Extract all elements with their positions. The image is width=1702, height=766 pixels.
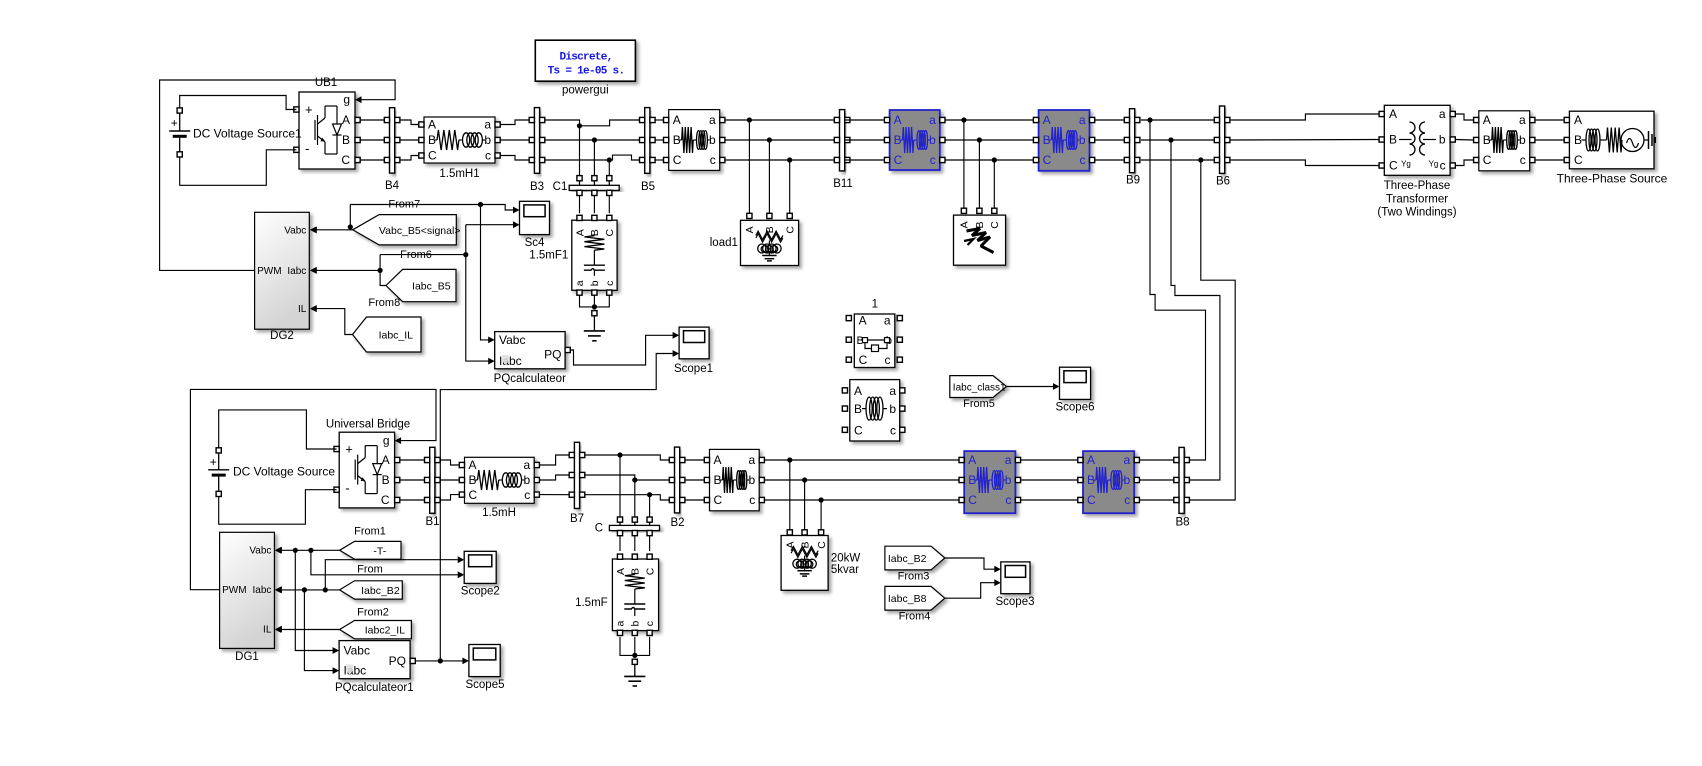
wire UB2 to bus B1 phase <box>400 479 425 481</box>
wire B11 to selected block <box>845 139 885 141</box>
wire down to PQcalculateor Vabc <box>481 205 489 340</box>
wire B5 to branch block <box>655 159 664 161</box>
svg-text:B5: B5 <box>641 181 655 193</box>
DC voltage source DC Voltage Source <box>208 448 335 497</box>
svg-text:Iabc: Iabc <box>252 585 271 596</box>
node load1 tap <box>767 137 772 142</box>
svg-text:b: b <box>524 473 531 487</box>
svg-text:-T-: -T- <box>373 545 386 557</box>
arrow into DG1 Iabc <box>275 587 282 594</box>
wire long tap B down to B8 <box>1171 140 1220 480</box>
svg-text:B2: B2 <box>670 517 684 529</box>
three-phase transformer (two windings) <box>1377 105 1456 218</box>
wire battery1 + to UB1 + <box>180 96 297 110</box>
wire vertical to PQcalculateor Iabc <box>466 225 489 361</box>
wire B6 to transformer C <box>1230 160 1379 166</box>
wire tap down to fault block <box>978 140 980 208</box>
wire B1 to 1.5mH A <box>441 460 460 465</box>
wire B6 to transformer B <box>1230 139 1379 142</box>
svg-text:Universal Bridge: Universal Bridge <box>326 419 410 431</box>
bus B4 <box>384 108 400 192</box>
svg-text:a: a <box>1079 113 1086 127</box>
svg-text:A: A <box>615 568 627 575</box>
PQcalculateor block <box>494 332 571 385</box>
wire B4-c to 1.5mH1 C <box>400 156 419 161</box>
wire Vabc down to PQcalculateor1 <box>295 550 333 650</box>
From tag From6 <box>386 269 456 301</box>
wire long tap A down to B8 <box>1150 120 1206 460</box>
svg-text:a: a <box>1519 113 1526 127</box>
svg-text:A: A <box>469 458 477 472</box>
svg-text:B7: B7 <box>570 513 584 525</box>
label From2 <box>357 607 389 619</box>
label From7 <box>388 199 420 211</box>
wire B1 to 1.5mH B <box>441 479 460 481</box>
svg-text:a: a <box>615 621 627 627</box>
arrow into Scope3 first input <box>994 566 1001 573</box>
wire branch to selected block phase <box>764 499 959 501</box>
svg-text:c: c <box>1005 493 1011 507</box>
three-phase series RL branch selected-bottom-1 <box>959 451 1021 513</box>
svg-text:B: B <box>1389 133 1397 147</box>
svg-text:B9: B9 <box>1126 175 1140 187</box>
svg-text:a: a <box>1005 453 1012 467</box>
svg-text:A: A <box>1389 107 1397 121</box>
svg-text:1.5mF: 1.5mF <box>575 597 608 609</box>
wire long tap C down to B8 <box>1189 160 1235 500</box>
scope Scope2 <box>461 551 500 597</box>
svg-text:a: a <box>749 453 756 467</box>
label From4 <box>899 611 931 623</box>
svg-text:A: A <box>1574 113 1582 127</box>
node tap B to C bank <box>632 477 637 482</box>
wire 1.5mH b to B7 <box>539 475 569 480</box>
svg-text:Discrete,: Discrete, <box>559 52 612 64</box>
svg-text:From: From <box>357 563 383 575</box>
wire selected1 to selected2 phase bottom <box>1021 459 1078 461</box>
ground below 1.5mF1 <box>584 311 605 341</box>
node fault tap <box>992 157 997 162</box>
bus B3 <box>529 108 545 193</box>
svg-text:C: C <box>1087 493 1096 507</box>
svg-text:C: C <box>859 353 868 367</box>
svg-text:Iabc_B5: Iabc_B5 <box>412 281 451 293</box>
arrow into DG1 IL <box>275 626 282 633</box>
arrow into DG2 Vabc <box>310 226 317 233</box>
svg-text:Vabc: Vabc <box>344 644 370 658</box>
wire DG2 PWM to UB1 gate <box>160 80 396 270</box>
label From1 <box>354 526 386 538</box>
svg-text:C: C <box>644 567 656 575</box>
svg-text:C: C <box>381 493 390 507</box>
label From <box>357 563 383 575</box>
three-phase series RL branch branch-B2 <box>704 449 764 510</box>
wire B4-b to 1.5mH1 B <box>400 139 419 141</box>
wire B9 to B6 phase <box>1141 119 1217 121</box>
svg-text:DC Voltage Source: DC Voltage Source <box>233 465 335 479</box>
wire UB1 to bus B4 phase <box>360 119 384 121</box>
wire 1.5mH1 a to B3 <box>500 120 529 125</box>
node tap A to B8 <box>1147 117 1152 122</box>
arrow into Scope2 second input <box>458 571 465 578</box>
svg-text:PQ: PQ <box>544 348 561 362</box>
wire tap A down to C bank <box>619 455 621 517</box>
wire C1 down to 1.5mF1 <box>593 196 595 214</box>
wire RL block to source phase <box>1535 159 1567 161</box>
wire tap down to load1 <box>789 160 791 213</box>
arrow into PQcalculateor Iabc <box>488 358 495 365</box>
wire branch to B11 phase C <box>725 159 835 161</box>
wire transformer b to RL block <box>1455 139 1473 142</box>
universal bridge UB1 <box>294 77 362 169</box>
three-phase fault block <box>954 208 1006 265</box>
svg-text:a: a <box>484 118 491 132</box>
svg-text:C: C <box>428 149 437 163</box>
wire selected2 to B8 phase <box>1139 459 1173 461</box>
scope Scope5 <box>465 645 504 691</box>
svg-text:C1: C1 <box>553 181 568 193</box>
arrow into Sc4 second input <box>513 221 520 228</box>
wire B2 to branch block phase <box>685 479 704 481</box>
three-phase series RL branch branch-B5 <box>664 110 725 171</box>
svg-text:From4: From4 <box>899 611 931 623</box>
arrow into Scope6 <box>1053 383 1060 390</box>
svg-text:B3: B3 <box>530 181 544 193</box>
three-phase series RL branch selected-top-1 <box>884 110 945 170</box>
svg-text:b: b <box>629 621 641 627</box>
svg-text:A: A <box>382 453 390 467</box>
powergui block <box>535 40 635 96</box>
wire Iabc_B2 to DG1 Iabc <box>281 589 340 591</box>
svg-text:+: + <box>305 102 313 117</box>
wire 1.5mH1 c to B3 <box>500 156 529 161</box>
wire selected2 to B8 phase <box>1139 479 1173 481</box>
svg-text:b: b <box>1519 133 1526 147</box>
wire battery2 + to UB2 + <box>219 410 337 449</box>
wire PQcalculateor1 PQ to Scope1 second input <box>440 354 673 661</box>
From tag From1 <box>340 541 401 559</box>
three-phase breaker block 1 <box>846 299 902 368</box>
label From3 <box>898 571 930 583</box>
svg-text:Yg: Yg <box>1429 160 1439 169</box>
svg-text:A: A <box>785 541 797 548</box>
svg-text:Three-Phase Source: Three-Phase Source <box>1557 171 1668 185</box>
svg-text:A: A <box>1087 453 1095 467</box>
bus B6 <box>1214 106 1230 188</box>
svg-text:From3: From3 <box>898 571 930 583</box>
svg-text:Scope6: Scope6 <box>1055 402 1094 414</box>
wire phase C tap to B5 <box>609 155 639 160</box>
svg-text:IL: IL <box>298 304 307 315</box>
svg-text:c: c <box>710 153 716 167</box>
svg-text:c: c <box>1124 493 1130 507</box>
node From6 branch <box>378 268 383 273</box>
wire B1 to 1.5mH C <box>441 495 460 500</box>
svg-text:(Two Windings): (Two Windings) <box>1377 207 1456 219</box>
label Universal Bridge <box>326 419 410 431</box>
svg-text:a: a <box>1124 453 1131 467</box>
svg-text:c: c <box>930 153 936 167</box>
wire Vabc to Scope2 second input <box>311 550 458 575</box>
svg-text:1.5mF1: 1.5mF1 <box>529 249 568 261</box>
svg-text:A: A <box>714 453 722 467</box>
PQcalculateor1 block <box>335 641 415 695</box>
wire Iabc down to PQcalculateor1 <box>304 590 332 671</box>
arrow into PQcalculateor1 Vabc <box>333 647 340 654</box>
label From6 <box>400 249 432 261</box>
scope Scope3 <box>995 562 1034 608</box>
DG subsystem DG1 <box>220 532 282 663</box>
svg-text:C: C <box>714 493 723 507</box>
wire B11 to selected block <box>845 119 885 121</box>
svg-text:b: b <box>1079 133 1086 147</box>
wire From4 to Scope3 <box>945 583 995 599</box>
wire From6 to DG2 Iabc <box>316 269 380 271</box>
wire PQ to Scope5 <box>415 660 462 662</box>
svg-text:Sc4: Sc4 <box>525 237 545 249</box>
wire UB1 to bus B4 phase <box>360 139 384 141</box>
svg-text:C: C <box>673 153 682 167</box>
wire branch to B11 phase A <box>725 119 835 121</box>
svg-text:Vabc: Vabc <box>249 546 271 557</box>
wire tap down to 20kW load <box>804 480 806 530</box>
svg-text:B: B <box>854 402 862 416</box>
svg-text:C: C <box>894 153 903 167</box>
svg-text:B: B <box>589 229 601 236</box>
wire B9 to B6 phase <box>1141 159 1217 161</box>
svg-text:IL: IL <box>263 625 272 636</box>
svg-text:A: A <box>673 113 681 127</box>
svg-text:DG1: DG1 <box>235 651 259 663</box>
svg-text:B6: B6 <box>1216 176 1230 188</box>
wire DG1 PWM to UB2 gate <box>190 389 436 589</box>
wire branch to selected block phase <box>764 459 959 461</box>
svg-text:A: A <box>859 314 867 328</box>
three-phase RC branch 1.5mF1 <box>529 215 617 295</box>
wire tap A down to C1 <box>579 126 581 176</box>
svg-text:c: c <box>485 149 491 163</box>
svg-text:a: a <box>1439 107 1446 121</box>
wire selected1 to selected2 phase bottom <box>1021 499 1078 501</box>
svg-text:g: g <box>343 93 350 107</box>
node phase C tap to C1 <box>607 157 612 162</box>
wire Iabc to Scope2 first input <box>325 560 458 590</box>
wire B5 to branch block <box>655 119 664 121</box>
svg-text:PQcalculateor1: PQcalculateor1 <box>335 682 414 694</box>
wire branch to selected block phase <box>764 479 959 481</box>
svg-text:c: c <box>604 281 616 286</box>
wire B2 to branch block phase <box>685 499 704 501</box>
wire tap down to 20kW load <box>820 500 822 530</box>
svg-text:A: A <box>1483 113 1491 127</box>
wire B7 to B2 phase A <box>585 455 670 460</box>
node 20kW load tap <box>787 457 792 462</box>
svg-text:C: C <box>1483 153 1492 167</box>
node neutral join bottom <box>632 653 637 658</box>
node Iabc branch to PQcalculateor1 <box>302 587 307 592</box>
svg-text:Three-Phase: Three-Phase <box>1384 180 1450 192</box>
svg-text:a: a <box>929 113 936 127</box>
svg-text:Scope3: Scope3 <box>995 596 1034 608</box>
node tap C to B8 <box>1198 157 1203 162</box>
node tap B to B8 <box>1168 137 1173 142</box>
From tag From4 <box>885 586 945 610</box>
svg-text:C: C <box>785 226 797 234</box>
svg-text:B: B <box>382 473 390 487</box>
wire C1 down to 1.5mF1 <box>608 196 610 214</box>
svg-text:load1: load1 <box>710 237 738 249</box>
svg-text:Iabc_class1: Iabc_class1 <box>953 383 1006 394</box>
svg-text:A: A <box>744 226 756 233</box>
node Vabc branch to Scope2 <box>308 548 313 553</box>
DG subsystem DG2 <box>255 212 317 342</box>
wire -T- to DG1 Vabc <box>281 549 340 551</box>
node 20kW load tap <box>819 497 824 502</box>
svg-text:C: C <box>854 423 863 437</box>
arrow into Scope2 first input <box>458 556 465 563</box>
svg-text:From2: From2 <box>357 607 389 619</box>
svg-text:a: a <box>709 113 716 127</box>
wire 1.5mF b to neutral <box>634 637 636 656</box>
wire From3 to Scope3 <box>945 558 995 569</box>
svg-text:c: c <box>890 423 896 437</box>
svg-text:20kW: 20kW <box>831 553 861 565</box>
svg-text:A: A <box>574 229 586 236</box>
svg-text:B11: B11 <box>833 178 853 190</box>
svg-text:C: C <box>341 153 350 167</box>
bus B11 <box>833 110 853 190</box>
label From8 <box>368 297 400 309</box>
wire battery2 - to UB2 - <box>219 490 337 525</box>
svg-text:C: C <box>1043 153 1052 167</box>
wire branch to B11 phase B <box>725 139 835 141</box>
wire tap down to fault block <box>993 160 995 208</box>
three-phase RC branch 1.5mF <box>575 554 658 635</box>
wire 1.5mF c to neutral <box>635 637 650 656</box>
svg-text:Iabc: Iabc <box>287 266 306 277</box>
wire 1.5mF1 b to neutral <box>593 296 595 307</box>
svg-text:B1: B1 <box>425 516 439 528</box>
svg-text:C: C <box>1389 159 1398 173</box>
svg-text:PWM: PWM <box>222 585 246 596</box>
svg-text:c: c <box>644 621 656 626</box>
node PQ branch to Scope1 <box>438 658 443 663</box>
wire B3 to phase C tap <box>545 159 610 161</box>
svg-text:a: a <box>889 384 896 398</box>
wire From6 tag up <box>380 255 386 286</box>
svg-text:Vabc_B5<signal>: Vabc_B5<signal> <box>379 225 461 237</box>
svg-text:A: A <box>959 221 971 228</box>
wire From5 to Scope6 <box>1007 386 1054 388</box>
svg-text:B: B <box>1574 133 1582 147</box>
svg-text:Vabc: Vabc <box>284 226 306 237</box>
wire UB1 to bus B4 phase <box>360 159 384 161</box>
svg-text:Scope2: Scope2 <box>461 586 500 598</box>
svg-text:C: C <box>989 221 1001 229</box>
wire tap down to load1 <box>768 140 770 213</box>
three-phase series RL branch selected-bottom-2 <box>1078 451 1140 513</box>
three-phase series RL branch 1.5mH1 <box>419 117 500 180</box>
bus B1 <box>425 447 441 528</box>
svg-text:+: + <box>171 116 178 130</box>
svg-text:1.5mH1: 1.5mH1 <box>439 168 479 180</box>
three-phase load 20kW 5kvar <box>781 530 860 591</box>
wire PQ to Scope1 <box>570 335 673 365</box>
svg-text:Iabc_B2: Iabc_B2 <box>361 585 400 597</box>
capacitor bank C <box>595 517 660 536</box>
wire phase C into B2 <box>650 495 670 500</box>
wire C bank down to 1.5mF <box>619 536 621 551</box>
svg-text:+: + <box>345 442 353 457</box>
wire From7 tag up <box>350 205 352 230</box>
wire B9 to B6 phase <box>1141 139 1217 141</box>
wire RL block to source phase <box>1535 119 1567 121</box>
svg-text:C: C <box>1574 153 1583 167</box>
svg-text:PQcalculateor: PQcalculateor <box>494 373 566 385</box>
arrow into Sc4 first input <box>513 207 520 214</box>
svg-text:1: 1 <box>872 299 878 311</box>
svg-text:DC Voltage Source1: DC Voltage Source1 <box>193 126 302 140</box>
node From7 line branch <box>478 202 483 207</box>
svg-text:C: C <box>816 541 828 549</box>
three-phase inductor block <box>842 380 905 441</box>
node phase B tap to C1 <box>592 137 597 142</box>
arrow into DG2 Iabc <box>310 267 317 274</box>
wire transformer a to RL block <box>1455 114 1473 120</box>
wire selected2 to B9 phase <box>1095 139 1127 141</box>
svg-text:From5: From5 <box>963 398 995 410</box>
wire From6 line <box>380 254 466 256</box>
node load1 tap <box>747 117 752 122</box>
svg-text:b: b <box>709 133 716 147</box>
three-phase series RL branch source-RL <box>1474 111 1535 171</box>
node tap C to C bank <box>647 492 652 497</box>
From tag From2 <box>340 581 403 599</box>
svg-text:b: b <box>889 402 896 416</box>
three-phase series RL branch 1.5mH <box>459 457 539 519</box>
wire transformer c to RL block <box>1455 160 1473 166</box>
node 20kW load tap <box>802 477 807 482</box>
svg-text:b: b <box>929 133 936 147</box>
node From7 branch <box>348 224 353 229</box>
wire tap B down to C1 <box>593 140 595 176</box>
bus B2 <box>669 447 685 529</box>
wire Iabc2_IL to DG1 IL <box>281 629 340 631</box>
wire 1.5mF1 a to neutral <box>580 296 595 307</box>
svg-text:Vabc: Vabc <box>499 333 525 347</box>
arrow into Scope1 second input <box>673 350 680 357</box>
node load1 tap <box>787 157 792 162</box>
svg-text:c: c <box>885 353 891 367</box>
svg-text:a: a <box>574 280 586 286</box>
wire From7 to DG2 Vabc <box>316 229 350 231</box>
arrow into Scope3 second input <box>994 579 1001 586</box>
wire B7 phase C <box>585 494 650 496</box>
scope Scope1 <box>674 327 713 375</box>
wire tap down to load1 <box>748 120 750 213</box>
bus B7 <box>569 442 585 525</box>
wire tap C down to C1 <box>608 160 610 176</box>
svg-text:-: - <box>305 141 309 156</box>
svg-text:b: b <box>749 473 756 487</box>
svg-text:Iabc2_IL: Iabc2_IL <box>365 625 405 637</box>
svg-text:From1: From1 <box>354 526 386 538</box>
wire 1.5mH c to B7 <box>539 494 569 496</box>
arrow into PQcalculateor1 Iabc <box>333 667 340 674</box>
wire selected2 to B9 phase <box>1095 119 1127 121</box>
svg-text:a: a <box>524 458 531 472</box>
svg-text:A: A <box>342 113 350 127</box>
